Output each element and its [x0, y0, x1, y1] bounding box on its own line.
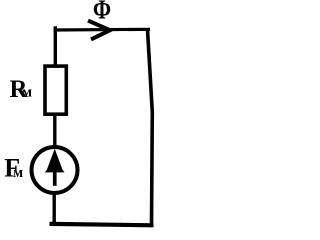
svg-text:Φ: Φ — [93, 0, 111, 25]
wire right vertical — [148, 30, 153, 226]
wire resistor to source — [53, 114, 56, 148]
source arrow up — [45, 149, 65, 173]
svg-text:м: м — [13, 165, 23, 181]
wire top horizontal — [54, 28, 151, 32]
wire source to bottom — [53, 193, 56, 226]
resistor RM — [45, 66, 66, 114]
wire bottom horizontal — [50, 224, 154, 225]
wire left vertical upper — [54, 26, 57, 67]
flux arrowhead on top wire — [88, 21, 110, 40]
svg-text:м: м — [22, 85, 32, 101]
source FM circle — [32, 147, 78, 193]
